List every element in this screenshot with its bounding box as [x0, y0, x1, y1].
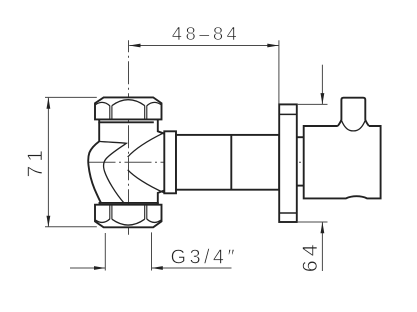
valve body: interior fillet to outlet bottom [128, 170, 165, 193]
top hex nut: left facet double line [109, 106, 111, 120]
collar band above bottom nut [100, 203, 158, 205]
thread callout G3/4: left arrow line [70, 267, 105, 269]
wall flange upper division line [279, 113, 297, 115]
dimension 71: bottom extension line [45, 226, 97, 228]
wall flange plate [279, 104, 297, 222]
top hex nut: right facet double line [144, 106, 146, 120]
handle body outline with grip notch on bottom edge [304, 126, 381, 198]
top hex nut: right facet arc [147, 102, 161, 105]
collar band under top nut [99, 119, 154, 122]
svg-text:48–84: 48–84 [172, 23, 240, 44]
dimension 48-84: dimension line [129, 45, 278, 47]
dimension 64: bottom arrowhead (up) [321, 222, 325, 233]
top hex nut: left facet arc [96, 102, 110, 105]
wall flange lower division line [279, 212, 297, 214]
dimension 64: top arrow line [321, 65, 323, 105]
dimension 71: top extension line [45, 96, 97, 98]
top hex nut: center facet arc [112, 100, 145, 106]
valve body: interior fillet to outlet top [128, 133, 165, 157]
dimension 64: bottom arrow line [321, 222, 323, 271]
bottom hex nut: right facet arc [147, 219, 161, 222]
outlet collar face [164, 131, 176, 193]
valve body: right side upper edge to outlet [158, 119, 165, 133]
thread callout G3/4: left arrowhead (right pointing) [94, 266, 105, 270]
thread callout G3/4: right arrowhead (left pointing) [152, 266, 163, 270]
handle knob base ellipse arc [341, 120, 365, 131]
svg-text:71: 71 [24, 146, 47, 177]
horizontal centerline of outlet pipe [89, 161, 381, 163]
dimension 71: bottom arrowhead [47, 216, 51, 227]
dimension 64: top arrowhead (down) [321, 93, 325, 104]
vertical centerline of valve body [128, 40, 130, 235]
stem between flange and handle body [297, 136, 304, 138]
dimension 64: bottom extension line [297, 221, 328, 223]
thread callout G3/4: right arrow line [152, 267, 232, 269]
dimension 71: dimension line [47, 98, 49, 228]
dimension 64: top extension line [297, 103, 328, 105]
outlet pipe joint line [230, 135, 232, 190]
svg-text:G3/4″: G3/4″ [171, 247, 238, 269]
bottom hex nut: right facet double line [144, 205, 146, 220]
valve body: interior hairpin fillet curve [99, 141, 126, 203]
bottom hex nut: center facet arc [112, 219, 145, 225]
dimension 48-84: right extension line [278, 40, 280, 103]
valve body: right side lower edge to outlet [158, 191, 165, 205]
thread callout G3/4: left extension line [104, 233, 106, 271]
bottom hex nut: outline [95, 205, 162, 228]
top hex nut: outline [95, 97, 162, 119]
dimension 71: top arrowhead [47, 98, 51, 109]
svg-text:64: 64 [298, 240, 322, 272]
bottom hex nut: left facet double line [109, 205, 111, 220]
outlet pipe / union [176, 135, 279, 190]
dimension 48-84: left arrowhead [129, 44, 140, 48]
handle knob outline [338, 98, 369, 126]
valve body: left profile outline [88, 122, 101, 203]
thread callout G3/4: right extension line [151, 232, 153, 270]
bottom hex nut: left facet arc [96, 219, 110, 222]
dimension 48-84: right arrowhead [267, 44, 278, 48]
